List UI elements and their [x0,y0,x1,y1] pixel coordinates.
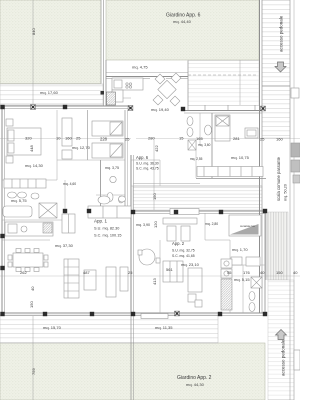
svg-text:448: 448 [29,145,34,152]
svg-text:mq. 23,10: mq. 23,10 [181,262,200,267]
svg-text:accesso pedonale: accesso pedonale [281,339,286,376]
svg-text:160: 160 [276,137,283,142]
svg-text:S.U. mq. 32,75: S.U. mq. 32,75 [172,249,195,253]
svg-text:176: 176 [243,270,250,275]
svg-text:40: 40 [260,270,265,275]
svg-text:280: 280 [148,136,155,141]
svg-text:228: 228 [100,137,108,142]
svg-text:S.C. mq. 41,65: S.C. mq. 41,65 [172,254,195,258]
svg-text:mq. 10,75: mq. 10,75 [231,155,250,160]
svg-text:25: 25 [260,137,265,142]
svg-text:150: 150 [29,301,34,308]
svg-text:40: 40 [30,286,35,291]
svg-text:165: 165 [196,136,203,141]
svg-text:mq. 50,20: mq. 50,20 [284,184,288,201]
svg-text:150: 150 [152,193,157,200]
svg-text:mq. 2,80: mq. 2,80 [205,222,218,226]
svg-text:422: 422 [154,145,159,152]
svg-text:487: 487 [83,270,90,275]
svg-text:mq. 17,60: mq. 17,60 [40,90,59,95]
svg-text:Giardino App. 2: Giardino App. 2 [177,375,212,381]
svg-text:40: 40 [293,270,298,275]
svg-text:mq. 3,90: mq. 3,90 [136,223,150,227]
svg-text:S.C. mq. 100.15: S.C. mq. 100.15 [94,234,121,238]
svg-text:413: 413 [152,278,157,285]
svg-text:25: 25 [125,137,130,142]
svg-text:281: 281 [233,136,240,141]
svg-text:App. 1: App. 1 [94,219,108,224]
svg-text:App. 6: App. 6 [136,155,149,160]
svg-text:320: 320 [25,136,32,141]
svg-text:Giardino App. 6: Giardino App. 6 [166,13,201,19]
svg-text:cenatoie lox: cenatoie lox [240,224,256,228]
svg-text:mq. 3,60: mq. 3,60 [198,143,211,147]
svg-text:120: 120 [153,221,158,228]
svg-text:mq. 5,15: mq. 5,15 [234,277,250,282]
svg-text:mq. 2,55: mq. 2,55 [190,157,203,161]
svg-text:10: 10 [56,136,61,141]
svg-text:mq. 44,40: mq. 44,40 [173,19,192,24]
svg-text:25: 25 [76,136,81,141]
svg-text:S.U. mq. 82.30: S.U. mq. 82.30 [94,227,119,231]
svg-text:15: 15 [179,136,184,141]
svg-text:mq. 15,70: mq. 15,70 [43,325,62,330]
svg-text:mq. 3,75: mq. 3,75 [105,166,119,170]
svg-text:mq. 5,75: mq. 5,75 [11,198,27,203]
svg-text:262: 262 [20,270,27,275]
svg-text:App. 2: App. 2 [172,241,185,246]
svg-text:840: 840 [31,28,36,35]
svg-text:mq. 4,60: mq. 4,60 [63,182,76,186]
svg-text:160: 160 [65,136,72,141]
svg-text:mq. 44,30: mq. 44,30 [186,382,205,387]
svg-text:mq. 14,30: mq. 14,30 [25,163,44,168]
svg-text:759: 759 [31,368,36,375]
svg-text:scala comune passante: scala comune passante [276,156,281,201]
svg-text:mq. 1,70: mq. 1,70 [232,247,248,252]
svg-text:S.C. mq. 43,75: S.C. mq. 43,75 [136,167,159,171]
svg-text:561: 561 [166,267,173,272]
svg-text:55: 55 [227,270,232,275]
svg-text:S.U. mq. 36,30: S.U. mq. 36,30 [136,162,159,166]
svg-text:mq. 19,40: mq. 19,40 [151,107,170,112]
svg-text:mq. 4,75: mq. 4,75 [132,65,148,70]
svg-text:mq. 12,70: mq. 12,70 [72,145,91,150]
svg-text:25: 25 [128,270,133,275]
svg-text:mq. 37,30: mq. 37,30 [55,243,74,248]
svg-text:accesso pedonale: accesso pedonale [279,15,284,52]
svg-text:150: 150 [276,270,283,275]
svg-text:mq. 11,35: mq. 11,35 [155,325,173,330]
